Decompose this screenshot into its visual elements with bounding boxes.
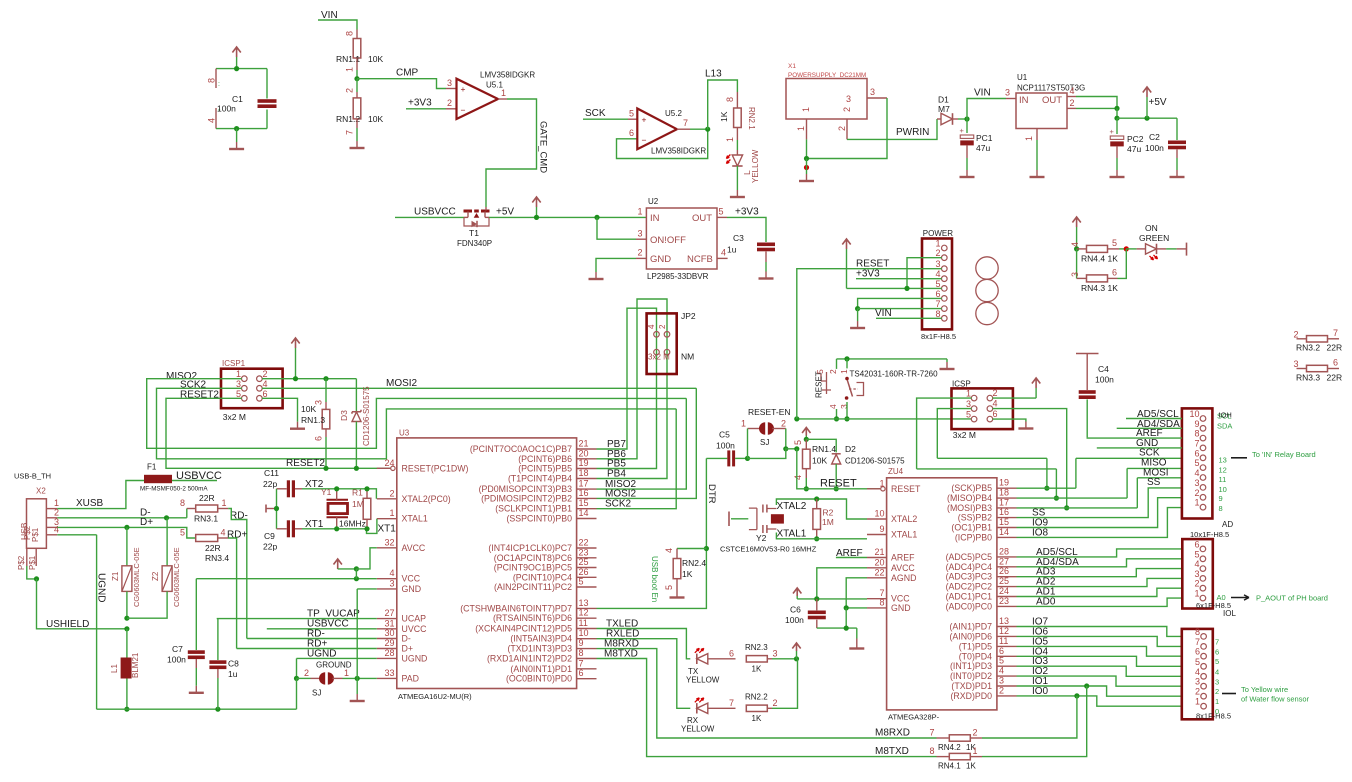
svg-text:22R: 22R [1327,373,1343,383]
svg-text:8: 8 [929,746,934,756]
svg-text:RN3.3: RN3.3 [1296,373,1320,383]
svg-text:XTAL2(PC0): XTAL2(PC0) [402,494,451,504]
power flag above C1 [232,47,240,57]
svg-text:2: 2 [1294,330,1299,340]
junction button pin4 [834,416,839,421]
wire TP_VUCAP [217,618,377,620]
svg-text:(INT4ICP1CLK0)PC7: (INT4ICP1CLK0)PC7 [488,543,572,553]
svg-text:3x2 M: 3x2 M [223,412,246,422]
capacitor C1 plates [266,69,268,99]
wire USB ground rail [97,708,297,710]
IC ZU4 pin 9 XTAL1 [867,534,887,536]
svg-text:−: − [642,135,647,145]
IC U3 pin 12 (RTSAIN5INT6)PD6 [577,617,597,619]
IC ZU4 pin 24 (ADC1)PC1 [997,596,1017,598]
wire MISO net to AD header [917,468,1057,470]
wire U1 outputs to +5V node [1076,97,1117,109]
svg-text:24: 24 [384,458,394,468]
wire RXLED [597,639,691,709]
op-amp U5.1 pin 2 [446,108,457,110]
svg-text:4: 4 [721,248,726,258]
svg-text:+: + [960,126,965,135]
svg-text:T1: T1 [469,228,479,238]
wire RN2.4 top [677,548,706,550]
svg-text:+3V3: +3V3 [735,207,759,218]
IC U3 pin 5 (AIN2PCINT11)PC2 [577,586,597,588]
IC U3 pin 4 VCC [377,578,397,580]
connector X1 body [786,79,867,120]
svg-text:CG0603MLC-05E: CG0603MLC-05E [172,547,181,607]
svg-text:18: 18 [999,488,1009,498]
wire RESET from POWER pin3 [797,269,942,419]
svg-text:9: 9 [579,638,584,648]
svg-text:2: 2 [389,488,394,498]
svg-text:22: 22 [874,567,884,577]
IC ZU4 pin 15 (OC1)PB1 [997,527,1017,529]
IC U3 pin 30 D- [377,638,397,640]
wire DTR vertical [597,458,707,608]
svg-text:3: 3 [447,78,452,88]
junction U5.2 output [705,127,710,132]
svg-text:100n: 100n [716,441,735,451]
svg-text:1K: 1K [752,714,762,723]
svg-text:5: 5 [1195,657,1200,667]
svg-text:VCC: VCC [402,574,421,584]
IC U3 pin 6 (OC0BINT0)PD0 [577,678,597,680]
svg-text:7: 7 [1333,328,1338,338]
wire XTAL2 loop [776,499,867,519]
svg-text:LP2985-33DBVR: LP2985-33DBVR [647,272,709,281]
svg-text:3: 3 [1070,272,1080,277]
connector X2 body [27,499,47,549]
IC ZU4 pin 20 AVCC [867,567,887,569]
svg-text:1K: 1K [966,762,976,771]
svg-text:L1: L1 [110,664,119,673]
svg-text:6: 6 [1333,358,1338,368]
IC U3 pin 2 XTAL2(PC0) [377,498,397,500]
wire M8TXD to IO1 [982,686,1087,757]
svg-text:19: 19 [579,458,589,468]
svg-text:47u: 47u [1127,144,1141,154]
svg-text:(T1)PD5: (T1)PD5 [959,641,992,651]
svg-text:PC1: PC1 [976,133,993,143]
svg-text:3: 3 [236,379,241,389]
svg-text:10: 10 [1219,485,1227,494]
wire USBVCC to T1 [395,216,464,218]
resistor RN1.2 [356,79,358,92]
junction D- at Z2 [164,515,169,520]
wire SCK [583,118,628,120]
svg-text:USBVCC: USBVCC [414,207,456,218]
wire RESET row to ZU4 [797,449,880,489]
svg-text:5: 5 [579,577,584,587]
svg-text:GREEN: GREEN [1139,233,1169,243]
svg-text:9: 9 [1194,419,1199,429]
svg-text:SCK: SCK [585,108,606,119]
regulator U1 pin 2 [1067,107,1076,109]
IC ZU4 pin 1 RESET [867,488,880,490]
svg-text:M8TXD: M8TXD [875,746,909,757]
svg-text:IN: IN [1019,95,1029,106]
ferrite L1 BLM21 [126,629,128,658]
wire crystal left rail [276,489,278,529]
wire ICSP1 pin2 +5V rail [262,378,356,380]
varistor Z2 [166,518,168,566]
wire LED RX to RN2.2 [708,707,736,709]
svg-text:3: 3 [846,94,851,104]
junction button pin3 [844,416,849,421]
regulator U2 pin 3 [636,238,646,240]
junction RN1.4 bottom on RESET [804,486,809,491]
svg-text:6: 6 [935,289,940,299]
ground below C2 [1176,170,1178,177]
wire XT1 to U3 XTAL1 [337,528,367,530]
svg-text:FDN340P: FDN340P [457,239,492,248]
junction SJ pin2 node [783,446,788,451]
svg-text:PWRIN: PWRIN [896,127,929,138]
svg-text:CD1206-S01575: CD1206-S01575 [362,386,371,446]
svg-text:1: 1 [1215,697,1219,706]
IC ZU4 pin 25 (ADC2)PC2 [997,586,1017,588]
svg-text:M8TXD: M8TXD [604,648,638,659]
IC ZU4 pin 7 VCC [867,598,887,600]
transistor T1 FDN340P [464,216,468,218]
resistor RN1.3 [325,379,327,402]
wire X1 node to ground [806,159,808,175]
wire RX row to +5V [772,659,798,709]
svg-text:PAD: PAD [402,673,419,683]
connector IOL body [1182,539,1213,608]
svg-text:6: 6 [1195,647,1200,657]
IC ZU4 pin 10 XTAL2 [867,518,887,520]
svg-text:(ADC0)PC0: (ADC0)PC0 [946,601,993,611]
wire C1 bottom rail [216,128,267,130]
svg-text:11: 11 [999,636,1008,646]
junction C1 bottom [234,126,239,131]
svg-text:9: 9 [879,524,884,534]
svg-text:IOH: IOH [1219,411,1232,420]
regulator U2 pin 2 GND [636,257,646,259]
wire AD4/SDA to IOL header [1017,559,1182,567]
wire D+ [57,527,196,538]
wire ICSP pin6 ground [993,419,1026,421]
svg-text:ON: ON [1145,223,1158,233]
svg-text:3x2 M: 3x2 M [953,430,976,440]
svg-text:7: 7 [1194,438,1199,448]
svg-text:UGND: UGND [402,653,428,663]
IC U3 pin 22 (INT4ICP1CLK0)PC7 [577,547,597,549]
svg-text:20: 20 [874,557,884,567]
wire button top to ground [946,359,948,362]
svg-text:1: 1 [839,369,849,374]
svg-text:P$2: P$2 [17,555,26,570]
resistor R2 [816,499,818,509]
svg-text:−: − [461,105,466,115]
wire IO5 to IO header [1017,646,1182,656]
IC U3 pin 7 (AIN0INT1)PD1 [577,668,597,670]
svg-text:7: 7 [929,728,934,738]
svg-text:(T0)PD4: (T0)PD4 [959,651,992,661]
junction UGND / rail corner [294,676,299,681]
junction POWER pin6/7 [855,306,860,311]
svg-text:D+: D+ [140,517,153,528]
svg-text:X1: X1 [788,63,796,70]
svg-text:P$1: P$1 [31,527,40,542]
svg-text:CMP: CMP [396,68,419,79]
svg-text:10: 10 [579,628,589,638]
connector X1 pin 2 stub [846,119,848,139]
regulator U2 pin 5 OUT [717,216,727,218]
svg-text:4: 4 [1070,86,1075,96]
svg-text:(SS)PB2: (SS)PB2 [958,513,992,523]
svg-text:XTAL2: XTAL2 [891,514,917,524]
connector IOL pads [1200,546,1206,552]
wire SCK net to AD header [937,457,1047,459]
svg-text:3: 3 [1194,569,1199,579]
svg-text:27: 27 [384,608,394,618]
svg-text:RN2.4: RN2.4 [682,558,706,568]
svg-text:AVCC: AVCC [402,543,426,553]
svg-text:of Water flow sensor: of Water flow sensor [1241,695,1310,704]
wire ICSP pin4 MOSI [993,409,1067,508]
capacitor PC1 [966,119,968,133]
svg-text:3: 3 [638,229,643,239]
wire X1 pin3 to pin1 node [807,98,888,159]
IC ZU4 pin 14 (ICP)PB0 [997,536,1017,538]
wire +3V3 from U2 [727,217,766,242]
wire RD+ to U3 [237,648,377,650]
svg-text:16: 16 [579,488,589,498]
svg-text:16: 16 [999,507,1009,517]
svg-text:10: 10 [874,509,884,519]
svg-text:RESET: RESET [815,371,824,398]
svg-text:XT1: XT1 [305,519,324,530]
wire AD1 to IOL header [1017,588,1182,596]
svg-text:1: 1 [344,668,349,678]
junction RN1.4 top [804,437,809,442]
svg-text:LMV358IDGKR: LMV358IDGKR [651,147,706,156]
svg-text:+3V3: +3V3 [856,269,880,280]
power +5V arrow at RN4.4 [1072,217,1080,227]
svg-text:5: 5 [999,656,1004,666]
regulator U1 body [1016,93,1067,129]
svg-text:2: 2 [993,388,998,398]
junction C8 at rail [215,707,220,712]
svg-text:4: 4 [828,404,838,409]
svg-text:PC2: PC2 [1127,134,1144,144]
red junction ON LED [1124,246,1129,251]
ground below PAD junction [356,678,358,694]
wire PWRIN [847,119,937,139]
IC ZU4 pin 26 (ADC3)PC3 [997,576,1017,578]
junction shield [34,576,39,581]
power +5V arrow above rail [532,197,540,207]
svg-text:XUSB: XUSB [76,498,104,509]
svg-text:7: 7 [935,299,940,309]
junction reset vertical at button row [794,416,799,421]
svg-text:10K: 10K [368,54,383,64]
annotation dash To IN relay [1231,457,1247,459]
svg-text:1: 1 [741,419,746,429]
svg-text:2: 2 [304,668,309,678]
svg-text:(ADC5)PC5: (ADC5)PC5 [946,552,993,562]
junction R2 bottom [814,536,819,541]
svg-text:RN4.1: RN4.1 [938,762,961,771]
svg-text:2: 2 [781,419,786,429]
button S1 top wire [837,358,948,360]
svg-text:RESET-EN: RESET-EN [748,407,791,417]
IC ZU4 pin 18 (MISO)PB4 [997,497,1017,499]
svg-text:22R: 22R [205,543,221,553]
svg-text:M8RXD: M8RXD [875,728,910,739]
svg-text:(ADC1)PC1: (ADC1)PC1 [946,592,993,602]
svg-text:1: 1 [973,746,978,756]
svg-text:D2: D2 [845,444,856,454]
IC ZU4 pin 13 (AIN1)PD7 [997,626,1017,628]
op-amp U5.2 pin 6 feedback wire [617,129,708,158]
svg-text:X2: X2 [36,487,46,496]
wire IO4 to IO header [1017,656,1182,666]
junction Y1 top [334,486,339,491]
wire LED TX to RN2.3 [708,658,736,660]
IC U3 pin 23 (OC1APCINT8)PC6 [577,557,597,559]
IC ZU4 pin 21 AREF [867,557,887,559]
svg-text:C3: C3 [733,233,744,243]
junction D3 bottom on RESET2 [354,466,359,471]
svg-text:P_AOUT of PH board: P_AOUT of PH board [1256,594,1328,603]
svg-text:YELLOW: YELLOW [681,725,715,734]
svg-text:1u: 1u [228,669,238,679]
red junction X1 [804,165,809,170]
junction button top [844,356,849,361]
svg-text:4: 4 [1070,242,1080,247]
wire SCK2 drop to pin 15 [597,409,677,509]
wire XT2 to U3 XTAL2 [337,489,377,499]
svg-text:1: 1 [1194,589,1199,599]
IC ZU4 pin 11 (T1)PD5 [997,645,1017,647]
svg-text:(RXD)PD0: (RXD)PD0 [950,691,992,701]
IC U3 pin 10 (INT5AIN3)PD4 [577,638,597,640]
svg-text:6: 6 [579,668,584,678]
svg-text:RN3.4: RN3.4 [205,553,229,563]
wire POWER pin7 [858,308,942,310]
wire POWER pin2 [907,258,942,289]
junction RN1.3 top [323,376,328,381]
svg-text:IN: IN [650,213,660,224]
connector AD header body [1182,408,1213,518]
svg-text:1: 1 [725,137,735,142]
ground below RN1.2 [356,141,358,148]
wire M8RXD to IO0 [982,696,1077,738]
svg-text:6: 6 [1215,647,1219,656]
svg-text:To 'IN' Relay Board: To 'IN' Relay Board [1252,450,1316,459]
wire RD- down [228,509,247,639]
capacitor C4 [1076,353,1099,355]
ground below C7 [195,686,197,693]
svg-text:1u: 1u [727,245,737,255]
svg-text:(PCINT7OC0AOC1C)PB7: (PCINT7OC0AOC1C)PB7 [470,444,572,454]
junction TX/RX +5V [794,656,799,661]
IC U3 pin 11 (XCKAIN4PCINT12)PD5 [577,628,597,630]
wire +5V rail [1117,117,1177,119]
capacitor PC2 [1116,118,1118,134]
svg-text:GND: GND [402,584,422,594]
wire GATE_CMD [486,99,537,207]
svg-text:6: 6 [1112,268,1117,278]
svg-text:3: 3 [1195,677,1200,687]
svg-text:1K: 1K [1108,283,1119,293]
wire MOSI2 drop to pin 16 [597,388,697,498]
svg-text:8x1F-H8.5: 8x1F-H8.5 [1196,712,1231,721]
resistor RN2.1 [736,92,738,108]
connector IO 8x1 body [1182,629,1213,719]
svg-text:14: 14 [579,508,589,518]
svg-text:RN4.3: RN4.3 [1081,283,1105,293]
junction +5V at U2 branch [594,215,599,220]
resistor R1 [366,489,368,499]
junction +5V rail at arrow [1144,116,1149,121]
svg-text:VIN: VIN [875,308,892,319]
svg-text:3: 3 [870,87,875,97]
ground below U2 [595,272,597,279]
svg-text:8: 8 [935,309,940,319]
svg-text:(XCKAIN4PCINT12)PD5: (XCKAIN4PCINT12)PD5 [475,624,572,634]
svg-text:GND: GND [650,254,671,265]
svg-text:2: 2 [828,369,838,374]
svg-text:D-: D- [402,634,411,644]
svg-text:OUT: OUT [1042,95,1062,106]
power +5V arrow at LEDs [792,643,800,651]
svg-text:26: 26 [999,566,1009,576]
svg-text:5: 5 [180,528,185,538]
wire AREF from C4 [1087,436,1182,439]
svg-text:8: 8 [180,498,185,508]
svg-text:ATMEGA328P-: ATMEGA328P- [888,713,940,722]
svg-text:PB4: PB4 [607,469,626,480]
wire +5V rail from T1 to U2 [489,216,646,218]
svg-text:13: 13 [1219,456,1227,465]
svg-text:TS42031-160R-TR-7260: TS42031-160R-TR-7260 [850,370,939,379]
wire T1 gate from GATE_CMD [485,207,487,211]
wire GND stub [1097,447,1182,449]
svg-text:IOL: IOL [1223,609,1236,618]
ground below C3 [765,272,767,279]
diode D1 M7 [937,118,941,120]
wire RD- to U3 [247,638,377,640]
svg-text:4: 4 [1215,667,1219,676]
svg-text:Z2: Z2 [151,571,160,581]
regulator U2 pin 4 NCFB [717,257,728,259]
wire RN4.3 loop [1076,249,1078,279]
svg-text:(AIN0INT1)PD1: (AIN0INT1)PD1 [510,664,572,674]
ground below C1 [236,129,238,142]
svg-text:JP2: JP2 [681,311,696,321]
svg-text:2: 2 [263,369,268,379]
svg-text:(PCINT5)PB5: (PCINT5)PB5 [518,464,572,474]
wire IO7 to IO header [1017,627,1182,637]
varistor Z1 [126,527,128,565]
svg-text:2: 2 [1070,98,1075,108]
junction Z1 bottom [124,616,129,621]
svg-text:4: 4 [207,118,217,123]
svg-text:8: 8 [725,97,735,102]
wire +3V3 to U5.1 pin 2 [406,108,446,110]
svg-text:RN4.2: RN4.2 [938,743,961,752]
svg-text:1: 1 [501,88,506,98]
svg-text:6: 6 [729,649,734,659]
svg-text:(ADC2)PC2: (ADC2)PC2 [946,582,993,592]
connector ICSP1 pads [242,376,248,382]
